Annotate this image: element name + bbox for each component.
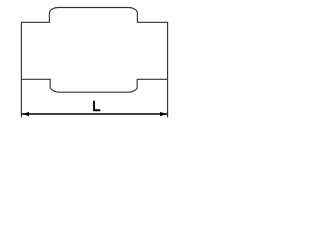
- dimension label L: [93, 101, 100, 112]
- dimension line L: [21, 113, 167, 115]
- part outline: [21, 8, 167, 93]
- right arrowhead: [160, 112, 167, 116]
- part outline: stepped core cross-section: [0, 0, 190, 127]
- left arrowhead: [22, 112, 29, 116]
- right extension line: [167, 79, 169, 117]
- left extension line: [20, 79, 22, 117]
